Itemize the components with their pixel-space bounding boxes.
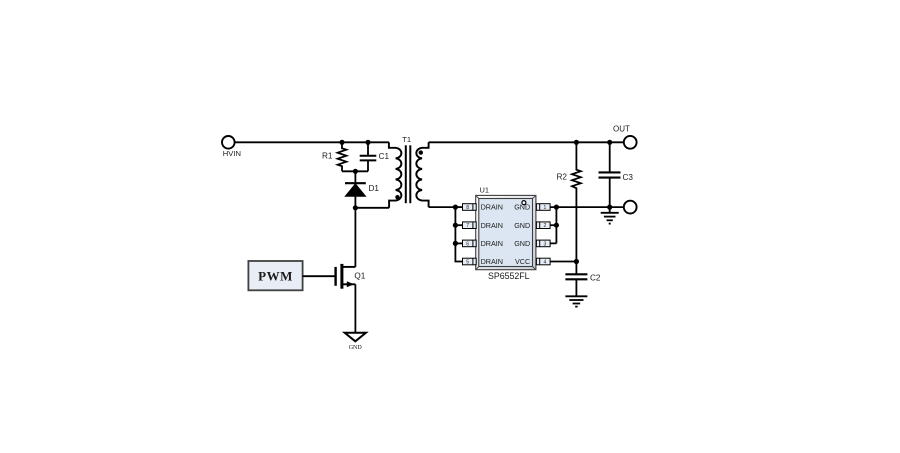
ground earth at OUT rail	[601, 207, 619, 224]
wire secondary bottom to U1 drain bus	[429, 206, 456, 208]
wire Q1 source down to ground	[354, 284, 356, 333]
PWM block	[248, 261, 302, 290]
pin 4 box	[536, 258, 550, 265]
svg-text:GND: GND	[514, 203, 530, 212]
svg-text:3: 3	[544, 241, 547, 247]
wire PWM to gate	[303, 275, 336, 277]
svg-text:R2: R2	[557, 173, 568, 182]
node R2 top	[574, 140, 579, 145]
svg-text:C2: C2	[590, 273, 601, 282]
diode D1	[345, 171, 379, 208]
wire pin8 stub	[455, 206, 462, 208]
core	[405, 145, 407, 203]
svg-text:DRAIN: DRAIN	[481, 239, 503, 248]
pin 3 box	[536, 240, 550, 247]
wire HVIN to transformer primary top	[235, 141, 389, 143]
node drain junction	[353, 205, 358, 210]
svg-text:OUT: OUT	[613, 125, 630, 134]
pin1 indicator	[522, 201, 526, 205]
svg-text:DRAIN: DRAIN	[481, 257, 503, 266]
wire pin6 stub	[455, 242, 462, 244]
pin 1 box	[536, 204, 550, 211]
svg-text:T1: T1	[402, 135, 411, 144]
node C3 bottom / ground	[607, 205, 612, 210]
wire secondary top to OUT rail	[429, 141, 624, 143]
wire left drain bus	[455, 207, 462, 261]
ground earth at C2	[565, 296, 587, 306]
svg-text:4: 4	[544, 259, 547, 265]
wire drain node to transformer primary bottom	[355, 207, 389, 209]
pin 2 box	[536, 222, 550, 229]
wire pin4 VCC to C2 node	[550, 261, 576, 263]
svg-text:DRAIN: DRAIN	[481, 203, 503, 212]
op-amp U1 chip body	[476, 186, 536, 281]
terminal HVIN	[222, 136, 241, 158]
resistor R1	[322, 142, 346, 171]
pin 5 box	[463, 258, 477, 265]
terminal OUT return	[624, 201, 637, 214]
transistor Q1	[336, 264, 366, 289]
node bus pin6	[453, 241, 458, 246]
svg-text:DRAIN: DRAIN	[481, 221, 503, 230]
svg-text:8: 8	[466, 205, 469, 211]
svg-text:GND: GND	[514, 239, 530, 248]
svg-text:VCC: VCC	[515, 257, 530, 266]
wire right gnd bus	[550, 207, 556, 243]
pin 6 box	[463, 240, 477, 247]
ground GND triangle	[345, 333, 366, 351]
svg-text:SP6552FL: SP6552FL	[488, 271, 530, 281]
svg-text:1: 1	[544, 205, 547, 211]
svg-text:C1: C1	[379, 152, 390, 161]
terminal OUT	[613, 125, 637, 149]
wire Q1 drain up to drain node	[354, 208, 356, 267]
svg-text:Q1: Q1	[354, 272, 365, 281]
node bus pin1	[554, 205, 559, 210]
node C1 top junction	[365, 140, 370, 145]
svg-text:U1: U1	[480, 186, 489, 195]
node C3 top	[607, 140, 612, 145]
secondary winding	[416, 142, 428, 207]
transformer T1	[389, 135, 429, 208]
svg-text:7: 7	[466, 223, 469, 229]
primary winding	[389, 142, 401, 208]
node bus pin2	[554, 223, 559, 228]
node R1 top junction	[339, 140, 344, 145]
svg-text:6: 6	[466, 241, 469, 247]
wire pin7 stub	[455, 224, 462, 226]
capacitor C2	[565, 262, 601, 296]
svg-text:GND: GND	[514, 221, 530, 230]
node snubber bottom junction	[353, 169, 358, 174]
svg-text:C3: C3	[623, 173, 634, 182]
svg-text:D1: D1	[369, 184, 380, 193]
primary phase dot	[395, 195, 399, 199]
svg-text:R1: R1	[322, 151, 333, 160]
wire pin1 stub and rail to OUT-	[550, 206, 624, 208]
node VCC junction	[574, 259, 579, 264]
svg-text:HVIN: HVIN	[223, 149, 241, 158]
node bus pin7	[453, 223, 458, 228]
svg-text:2: 2	[544, 223, 547, 229]
resistor R2	[557, 142, 581, 261]
svg-text:GND: GND	[349, 345, 363, 351]
node bus pin8	[453, 205, 458, 210]
capacitor C3	[599, 142, 634, 207]
svg-text:5: 5	[466, 259, 469, 265]
pin 8 box	[463, 204, 477, 211]
wire pin2 stub	[550, 224, 556, 226]
capacitor C1	[360, 142, 390, 171]
secondary phase dot	[419, 150, 423, 154]
svg-text:PWM: PWM	[258, 269, 293, 284]
pin 7 box	[463, 222, 477, 229]
wire R1/C1 bottom join	[342, 170, 368, 172]
